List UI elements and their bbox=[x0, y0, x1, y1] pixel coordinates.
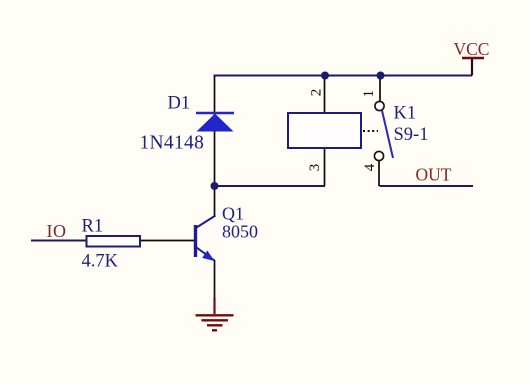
svg-text:1: 1 bbox=[361, 90, 377, 98]
svg-text:VCC: VCC bbox=[454, 39, 490, 59]
svg-text:K1: K1 bbox=[394, 104, 417, 124]
svg-text:D1: D1 bbox=[168, 94, 191, 114]
svg-text:2: 2 bbox=[308, 89, 324, 97]
svg-text:1N4148: 1N4148 bbox=[140, 133, 205, 154]
svg-text:4.7K: 4.7K bbox=[82, 252, 119, 272]
svg-text:S9-1: S9-1 bbox=[394, 125, 429, 145]
svg-text:IO: IO bbox=[47, 221, 67, 241]
svg-text:OUT: OUT bbox=[416, 165, 452, 185]
svg-text:3: 3 bbox=[307, 164, 323, 172]
svg-text:Q1: Q1 bbox=[222, 204, 244, 224]
svg-text:4: 4 bbox=[362, 163, 378, 171]
svg-text:R1: R1 bbox=[82, 217, 104, 237]
svg-text:8050: 8050 bbox=[222, 222, 258, 242]
